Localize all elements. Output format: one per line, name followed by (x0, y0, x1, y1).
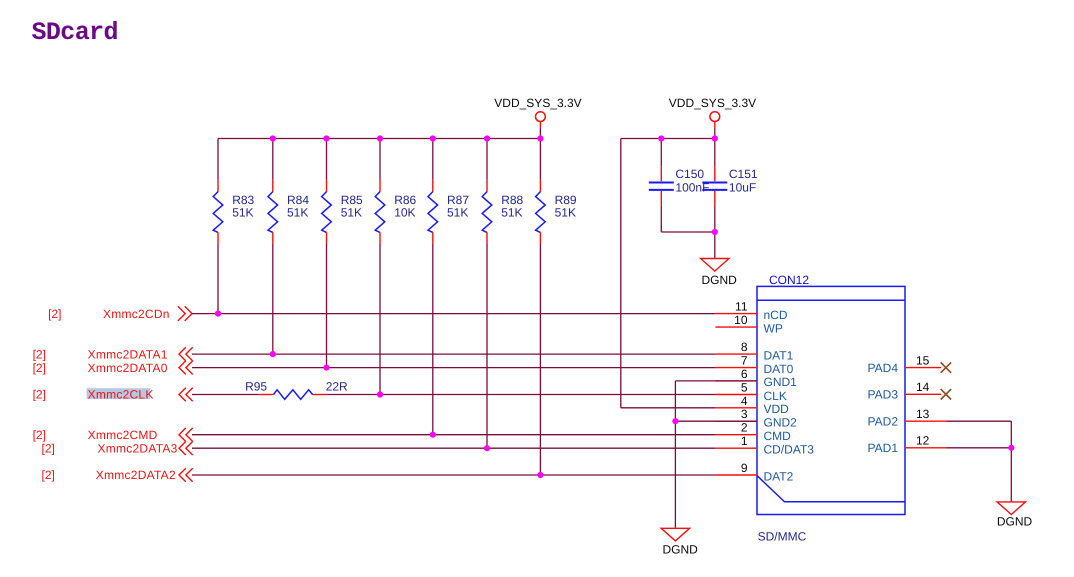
svg-text:51K: 51K (341, 206, 362, 220)
svg-text:C150: C150 (675, 167, 704, 181)
svg-text:GND1: GND1 (764, 375, 798, 389)
svg-text:PAD1: PAD1 (868, 441, 899, 455)
svg-text:SDcard: SDcard (32, 18, 118, 47)
svg-text:8: 8 (741, 340, 748, 354)
svg-text:2: 2 (741, 421, 748, 435)
svg-text:DGND: DGND (663, 542, 699, 556)
svg-text:Xmmc2DATA3: Xmmc2DATA3 (98, 441, 178, 455)
svg-text:Xmmc2DATA2: Xmmc2DATA2 (96, 468, 176, 482)
svg-text:DAT0: DAT0 (764, 362, 794, 376)
svg-text:1: 1 (741, 434, 748, 448)
svg-text:VDD: VDD (764, 402, 790, 416)
svg-text:R87: R87 (447, 193, 469, 207)
svg-text:100nF: 100nF (675, 181, 709, 195)
svg-text:PAD3: PAD3 (868, 388, 899, 402)
svg-text:R88: R88 (501, 193, 523, 207)
svg-text:22R: 22R (326, 380, 348, 394)
svg-text:[2]: [2] (33, 388, 46, 402)
svg-text:12: 12 (916, 434, 930, 448)
svg-text:10uF: 10uF (729, 181, 756, 195)
svg-text:DGND: DGND (702, 273, 738, 287)
svg-text:11: 11 (735, 300, 748, 314)
svg-text:3: 3 (741, 407, 748, 421)
svg-text:SD/MMC: SD/MMC (758, 529, 807, 543)
svg-text:Xmmc2DATA0: Xmmc2DATA0 (88, 361, 168, 375)
svg-text:R86: R86 (394, 193, 416, 207)
svg-text:6: 6 (741, 367, 748, 381)
svg-text:[2]: [2] (48, 307, 61, 321)
svg-text:WP: WP (764, 321, 783, 335)
svg-text:DAT1: DAT1 (764, 348, 794, 362)
svg-text:R84: R84 (287, 193, 309, 207)
svg-text:7: 7 (741, 354, 748, 368)
svg-text:Xmmc2CDn: Xmmc2CDn (103, 307, 170, 321)
svg-text:14: 14 (916, 380, 930, 394)
svg-text:10: 10 (734, 313, 748, 327)
svg-text:DGND: DGND (997, 515, 1033, 529)
svg-text:9: 9 (741, 461, 748, 475)
svg-text:PAD2: PAD2 (868, 415, 899, 429)
svg-text:Xmmc2DATA1: Xmmc2DATA1 (88, 347, 168, 361)
svg-text:[2]: [2] (42, 441, 55, 455)
svg-text:51K: 51K (501, 206, 522, 220)
svg-text:CD/DAT3: CD/DAT3 (764, 443, 815, 457)
svg-text:5: 5 (741, 381, 748, 395)
svg-text:R83: R83 (232, 193, 254, 207)
svg-text:[2]: [2] (42, 468, 55, 482)
svg-text:PAD4: PAD4 (868, 361, 899, 375)
svg-text:51K: 51K (555, 206, 576, 220)
svg-text:VDD_SYS_3.3V: VDD_SYS_3.3V (494, 96, 581, 110)
svg-text:[2]: [2] (33, 428, 46, 442)
svg-text:10K: 10K (394, 206, 415, 220)
svg-text:[2]: [2] (33, 347, 46, 361)
svg-text:[2]: [2] (33, 361, 46, 375)
svg-text:51K: 51K (447, 206, 468, 220)
svg-text:Xmmc2CMD: Xmmc2CMD (88, 428, 158, 442)
svg-text:51K: 51K (287, 206, 308, 220)
svg-text:4: 4 (741, 394, 748, 408)
svg-text:R89: R89 (555, 193, 577, 207)
svg-text:R95: R95 (245, 380, 267, 394)
svg-text:15: 15 (916, 353, 930, 367)
svg-text:VDD_SYS_3.3V: VDD_SYS_3.3V (669, 96, 756, 110)
svg-text:GND2: GND2 (764, 416, 798, 430)
svg-text:Xmmc2CLK: Xmmc2CLK (88, 388, 154, 402)
svg-text:CON12: CON12 (769, 273, 809, 287)
svg-text:R85: R85 (341, 193, 363, 207)
svg-text:CLK: CLK (764, 389, 787, 403)
svg-text:nCD: nCD (764, 308, 788, 322)
svg-text:51K: 51K (232, 206, 253, 220)
svg-text:13: 13 (916, 407, 930, 421)
svg-text:C151: C151 (729, 167, 758, 181)
svg-text:CMD: CMD (764, 429, 792, 443)
svg-text:DAT2: DAT2 (764, 469, 794, 483)
